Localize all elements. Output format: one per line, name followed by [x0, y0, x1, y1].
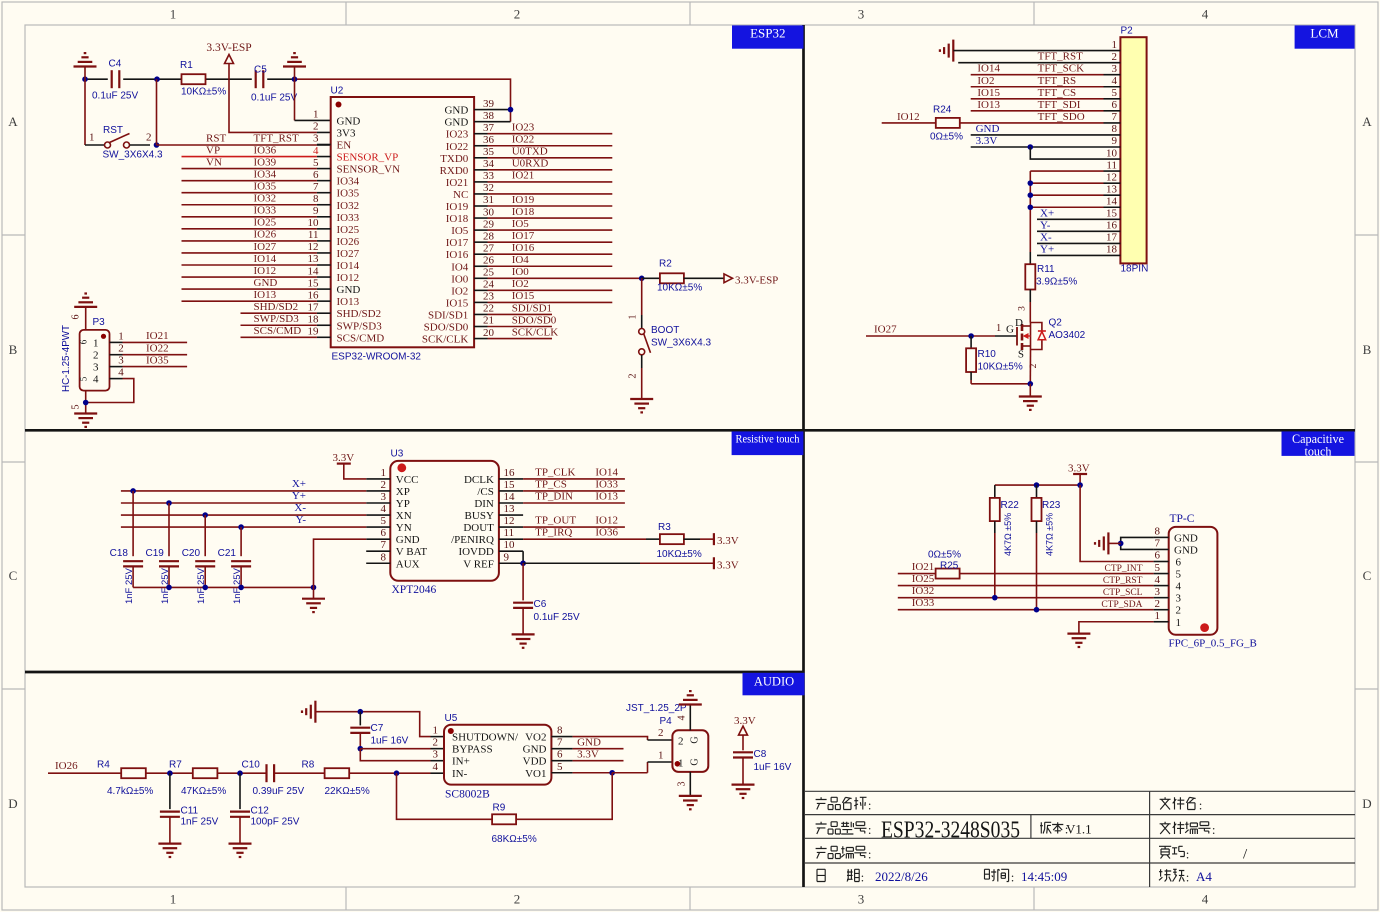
U5 pin1 dot [448, 728, 454, 734]
wire TFT_RST [958, 62, 1103, 64]
svg-text:GND: GND [1174, 544, 1198, 556]
svg-text:Y-: Y- [1040, 219, 1051, 231]
node IO27-R10 [968, 333, 974, 339]
svg-text:7: 7 [1112, 111, 1118, 123]
svg-text:12: 12 [504, 515, 515, 527]
wire gnd to RST pin1 [84, 79, 86, 145]
title 产品编号 [816, 846, 827, 858]
capacitor C12 [239, 773, 241, 809]
wire RST vertical [156, 79, 158, 145]
switch BOOT SW_3X6X4.3 [639, 329, 645, 335]
svg-text:R9: R9 [493, 803, 506, 814]
capacitor C10 [265, 764, 267, 782]
U2 pin1 dot [336, 102, 342, 108]
svg-text:SHUTDOWN/: SHUTDOWN/ [452, 732, 519, 744]
svg-text:SDI/SD1: SDI/SD1 [428, 309, 468, 321]
svg-text:0.1uF 25V: 0.1uF 25V [534, 612, 580, 623]
title block version divider [1030, 815, 1032, 839]
power 3.3V VREF [713, 557, 715, 569]
ground ctp bottom [1067, 632, 1090, 634]
svg-text:X+: X+ [292, 478, 306, 490]
svg-text:10: 10 [1106, 147, 1118, 159]
wires TP nets [523, 478, 625, 480]
node bl row14 [1028, 204, 1034, 210]
svg-text:1: 1 [1112, 39, 1118, 51]
switch RST SW_3X6X4.3 [85, 144, 104, 146]
svg-text:8: 8 [557, 725, 563, 737]
node IN- R9 tap [394, 770, 400, 776]
svg-text:S: S [1018, 349, 1024, 361]
svg-text:/CS: /CS [477, 486, 494, 498]
wire P3 IO22 [123, 354, 188, 356]
node source-gnd [1028, 381, 1034, 387]
svg-text:GND: GND [337, 115, 361, 127]
svg-text:IO27: IO27 [254, 241, 277, 253]
P3 pin stubs [110, 341, 123, 343]
svg-text:IO2: IO2 [451, 285, 468, 297]
svg-text:SCK/CLK: SCK/CLK [422, 334, 469, 346]
P3 pin1 dot [101, 334, 106, 339]
svg-text:1: 1 [170, 7, 177, 22]
svg-text:TP_OUT: TP_OUT [535, 515, 576, 527]
svg-text:2: 2 [628, 374, 639, 379]
svg-text:C8: C8 [754, 749, 767, 760]
svg-text:IO35: IO35 [146, 354, 169, 366]
U2 left pin stubs [317, 144, 331, 146]
title 产品名称 [816, 797, 827, 809]
svg-text:IO33: IO33 [337, 212, 360, 224]
resistor R3 [660, 534, 684, 544]
svg-text:touch: touch [1304, 445, 1331, 459]
node bl row13 [1028, 192, 1034, 198]
svg-text:1: 1 [170, 892, 177, 907]
svg-text:C18: C18 [110, 548, 129, 559]
svg-text:3.3V-ESP: 3.3V-ESP [206, 42, 251, 54]
svg-text:3.3V: 3.3V [734, 715, 756, 727]
svg-text:C20: C20 [182, 548, 201, 559]
svg-text:IO26: IO26 [55, 760, 78, 772]
svg-text:CTP_RST: CTP_RST [1103, 576, 1143, 586]
svg-text:5: 5 [1112, 87, 1118, 99]
svg-text:SWP/SD3: SWP/SD3 [254, 313, 300, 325]
wire R3 to 3.3V [684, 538, 700, 540]
wire R4-R7 [146, 772, 193, 774]
wire IO0 to R2 [642, 277, 660, 279]
svg-text:P4: P4 [660, 716, 673, 727]
svg-text:IO33: IO33 [595, 478, 618, 490]
wire IO12 to R24 [882, 122, 936, 124]
node 3.3V junction [1028, 144, 1034, 150]
svg-text:IO27: IO27 [874, 324, 897, 336]
svg-text:3: 3 [433, 749, 439, 761]
svg-text:U3: U3 [391, 449, 404, 460]
svg-text:7: 7 [557, 737, 563, 749]
wire TFT_SDO [960, 122, 1104, 124]
svg-text:ESP32-WROOM-32: ESP32-WROOM-32 [332, 352, 422, 363]
svg-text:IO33: IO33 [254, 205, 277, 217]
svg-text:BOOT: BOOT [651, 325, 679, 336]
node C20 tap [202, 512, 208, 518]
banner Capacitive touch [1282, 431, 1355, 456]
svg-text:TFT_SDI: TFT_SDI [1038, 99, 1081, 111]
wire R9 right [516, 773, 612, 820]
wire R8-U5 [349, 772, 430, 774]
wire VO1 out [573, 772, 613, 774]
U2 right pin stubs [474, 109, 487, 111]
svg-text:C12: C12 [251, 806, 270, 817]
svg-text:20: 20 [483, 327, 495, 339]
ground C11 [158, 842, 181, 844]
svg-text:TFT_SDO: TFT_SDO [1038, 111, 1085, 123]
svg-text:VDD: VDD [523, 756, 547, 768]
svg-text:YN: YN [396, 522, 412, 534]
svg-text:3.3V: 3.3V [717, 535, 739, 547]
wire TFT_CS [971, 98, 1104, 100]
svg-text:34: 34 [483, 158, 495, 170]
svg-text:1: 1 [1176, 617, 1182, 629]
svg-text:IO14: IO14 [337, 260, 360, 272]
svg-text::: : [1011, 870, 1015, 885]
svg-text:IO34: IO34 [337, 176, 360, 188]
svg-text:1: 1 [628, 315, 639, 320]
svg-text:IO18: IO18 [512, 206, 535, 218]
svg-text:EN: EN [337, 140, 352, 152]
svg-text:U5: U5 [445, 713, 458, 724]
ground top C5-right [283, 65, 306, 67]
svg-text:3: 3 [858, 7, 865, 22]
ground C6 [512, 633, 535, 635]
svg-text:1: 1 [678, 758, 684, 770]
svg-text:Y+: Y+ [1040, 243, 1054, 255]
node C21 tap [238, 524, 244, 530]
svg-text:CTP_SCL: CTP_SCL [1103, 588, 1143, 598]
title block row line 3 [805, 837, 1355, 839]
svg-text:3.3V-ESP: 3.3V-ESP [735, 275, 778, 287]
svg-text:0.1uF 25V: 0.1uF 25V [251, 93, 297, 104]
svg-text:BYPASS: BYPASS [452, 744, 493, 756]
svg-text:39: 39 [483, 98, 495, 110]
svg-text:SCS/CMD: SCS/CMD [254, 325, 302, 337]
ground audio left [314, 701, 316, 723]
svg-text:5: 5 [381, 515, 387, 527]
svg-text:IO0: IO0 [512, 266, 530, 278]
svg-text:2: 2 [658, 727, 664, 739]
frame row ticks left [2, 234, 25, 236]
svg-text:C7: C7 [371, 723, 384, 734]
svg-text:3.3V: 3.3V [1068, 463, 1090, 475]
wire R7-C10 [217, 772, 266, 774]
wire C20 drop [204, 515, 206, 556]
svg-text:R23: R23 [1042, 500, 1061, 511]
svg-text:2: 2 [313, 121, 319, 133]
svg-text:VCC: VCC [396, 474, 419, 486]
wire shutdown rail [315, 712, 430, 737]
svg-text:4: 4 [1112, 75, 1118, 87]
svg-text:D: D [8, 796, 17, 811]
svg-text:IO17: IO17 [512, 230, 535, 242]
title 产品型号 [816, 822, 827, 834]
svg-text:V REF: V REF [463, 558, 494, 570]
wire rail to pin39/38 [295, 79, 511, 121]
divider horizontal left [25, 671, 804, 674]
svg-text:3.3V: 3.3V [333, 452, 355, 464]
svg-text:IO26: IO26 [337, 236, 360, 248]
svg-text:C11: C11 [181, 806, 199, 817]
svg-text:3.3V: 3.3V [976, 135, 998, 147]
capacitor C5 [255, 70, 257, 88]
svg-text:IO32: IO32 [337, 200, 360, 212]
divider vertical [802, 25, 805, 887]
svg-text:1nF 25V: 1nF 25V [181, 817, 219, 828]
svg-text:38: 38 [483, 110, 495, 122]
wire row9-row10 [1030, 147, 1103, 159]
wire TFT_SCK [971, 74, 1104, 76]
capacitor C7 [359, 712, 361, 726]
svg-text:A: A [1362, 114, 1372, 129]
svg-text:9: 9 [1112, 135, 1118, 147]
wires U2 right nets [488, 133, 613, 135]
svg-text:18: 18 [308, 313, 320, 325]
svg-text:3: 3 [93, 362, 99, 374]
ground P3 top [74, 306, 97, 308]
svg-text:2: 2 [1176, 605, 1182, 617]
svg-text:13: 13 [308, 253, 320, 265]
U3 pin stubs [366, 478, 390, 480]
svg-text:11: 11 [1106, 159, 1117, 171]
capacitor C6 [513, 602, 533, 604]
svg-text:C: C [1363, 568, 1372, 583]
svg-text:IO21: IO21 [446, 177, 469, 189]
svg-text:9: 9 [504, 551, 510, 563]
svg-text:IO4: IO4 [512, 254, 530, 266]
svg-text:IN-: IN- [452, 768, 468, 780]
svg-text:8: 8 [1155, 526, 1161, 538]
svg-text::: : [1212, 822, 1216, 837]
svg-text::: : [1186, 870, 1190, 885]
svg-text:R10: R10 [978, 349, 997, 360]
svg-text:IO2: IO2 [977, 75, 994, 87]
svg-text:0.1uF 25V: 0.1uF 25V [92, 91, 138, 102]
ground C8 [732, 783, 755, 785]
capacitor C11 [169, 773, 171, 809]
title 时间 [985, 869, 997, 881]
wire pin39 tie [488, 109, 511, 111]
svg-text:3: 3 [1018, 306, 1028, 311]
svg-text::: : [868, 847, 872, 862]
svg-text:6: 6 [313, 169, 319, 181]
svg-text:5: 5 [557, 761, 563, 773]
svg-text:IO12: IO12 [254, 265, 277, 277]
wire 3.3V to pin6 [1080, 485, 1154, 561]
svg-text:IO4: IO4 [451, 261, 469, 273]
capacitor C20 [195, 560, 215, 562]
svg-text:0.39uF 25V: 0.39uF 25V [253, 786, 305, 797]
wire touch rows [1037, 218, 1104, 220]
svg-text:GND: GND [444, 117, 468, 129]
svg-text:IO25: IO25 [254, 217, 277, 229]
svg-text:10: 10 [504, 539, 516, 551]
svg-text:17: 17 [308, 301, 320, 313]
svg-text:3: 3 [381, 491, 387, 503]
capacitor C8 [733, 751, 753, 753]
svg-text:U2: U2 [331, 86, 344, 97]
svg-text:18: 18 [1106, 244, 1118, 256]
svg-text:3: 3 [858, 892, 865, 907]
svg-text:VO2: VO2 [525, 732, 546, 744]
svg-text:8: 8 [313, 193, 319, 205]
wire P2 pin1 [953, 50, 1103, 52]
banner AUDIO [743, 673, 805, 696]
svg-text:10KΩ±5%: 10KΩ±5% [181, 87, 226, 98]
svg-text:Resistive touch: Resistive touch [736, 432, 800, 446]
svg-text:X-: X- [1040, 231, 1052, 243]
svg-text:IO19: IO19 [512, 194, 535, 206]
power 3.3V R3 [713, 533, 715, 545]
svg-text:37: 37 [483, 122, 495, 134]
svg-text:6: 6 [1155, 550, 1161, 562]
svg-text:3: 3 [1155, 586, 1161, 598]
svg-text:6: 6 [1112, 99, 1118, 111]
svg-text:R24: R24 [933, 105, 952, 116]
svg-text:IO22: IO22 [146, 343, 169, 355]
title block row line 2 [805, 814, 1355, 816]
resistor R23 [1036, 485, 1038, 498]
P4 pin1 dot [675, 761, 681, 767]
resistor R10 [970, 336, 972, 348]
svg-text:B: B [9, 342, 18, 357]
svg-text:0Ω±5%: 0Ω±5% [930, 132, 963, 143]
svg-text:2: 2 [146, 132, 152, 144]
svg-text:4: 4 [1176, 581, 1182, 593]
svg-text:35: 35 [483, 146, 495, 158]
XPT2046 U3 body [390, 461, 499, 581]
wire IO26 in [48, 772, 121, 774]
wire CTP_INT [960, 573, 1154, 575]
wire IO0 to BOOT [641, 278, 643, 315]
svg-text:1: 1 [313, 109, 319, 121]
wire GND row U3 [314, 539, 367, 599]
svg-text:5: 5 [71, 405, 82, 410]
wire P4 shield bottom [689, 772, 691, 796]
wire IO0 net [488, 277, 642, 279]
svg-text:IO0: IO0 [451, 273, 469, 285]
svg-text:13: 13 [1106, 183, 1118, 195]
svg-text:TFT_CS: TFT_CS [1038, 87, 1077, 99]
svg-text:IO22: IO22 [512, 134, 535, 146]
svg-text:JST_1.25_2P: JST_1.25_2P [626, 703, 687, 714]
node VREF [520, 560, 526, 566]
svg-text:IOVDD: IOVDD [458, 546, 493, 558]
svg-text:GND: GND [396, 534, 420, 546]
svg-text:SCS/CMD: SCS/CMD [337, 332, 385, 344]
banner LCM [1295, 25, 1355, 48]
svg-text:IO21: IO21 [512, 170, 535, 182]
wire IO21 lead [898, 573, 936, 575]
svg-text:GND: GND [577, 737, 601, 749]
svg-text:IO13: IO13 [337, 296, 360, 308]
P2 pin stubs [1104, 50, 1121, 52]
node rail-C4 [82, 76, 88, 82]
wire pin38 tie [488, 121, 511, 123]
svg-text:X+: X+ [1040, 207, 1054, 219]
svg-text:SENSOR_VP: SENSOR_VP [337, 152, 399, 164]
svg-text:R25: R25 [940, 561, 959, 572]
svg-text:25: 25 [483, 267, 495, 279]
svg-text:NC: NC [453, 189, 468, 201]
svg-text:IO15: IO15 [977, 87, 1000, 99]
svg-text:5: 5 [313, 157, 319, 169]
svg-text:IO13: IO13 [595, 491, 618, 503]
svg-text:SHD/SD2: SHD/SD2 [254, 301, 299, 313]
svg-text:47KΩ±5%: 47KΩ±5% [181, 786, 226, 797]
wire R9 left [397, 773, 493, 819]
svg-text:ESP32-3248S035: ESP32-3248S035 [881, 817, 1020, 844]
node C7 top [358, 709, 364, 715]
wire VO2 to P4 [573, 737, 648, 740]
svg-text:IO36: IO36 [595, 527, 618, 539]
wire GND net U5 [573, 748, 624, 750]
svg-text:DCLK: DCLK [464, 474, 494, 486]
svg-text:18PIN: 18PIN [1121, 264, 1149, 275]
svg-text:1: 1 [93, 337, 99, 349]
svg-text:SC8002B: SC8002B [445, 789, 490, 801]
power 3.3V-ESP top [225, 55, 234, 64]
svg-text:BUSY: BUSY [465, 510, 494, 522]
wire P3 pin4 loop [86, 379, 134, 403]
svg-text:3.3V: 3.3V [577, 749, 599, 761]
resistor R7 [193, 768, 218, 778]
wire P3 IO21 [123, 341, 188, 343]
title 日期 [817, 869, 825, 881]
svg-text:14: 14 [308, 265, 320, 277]
U5 right stubs [551, 736, 572, 738]
node rail-R23 [1034, 482, 1040, 488]
svg-text:IO23: IO23 [446, 129, 469, 141]
svg-text::: : [1186, 847, 1190, 862]
svg-text:17: 17 [1106, 232, 1118, 244]
wire 3.3V net U5 [573, 760, 624, 762]
svg-text:Q2: Q2 [1049, 318, 1063, 329]
svg-text:12: 12 [308, 241, 319, 253]
svg-text:IO21: IO21 [912, 561, 935, 573]
svg-text:IO36: IO36 [254, 144, 277, 156]
wire pullup rail [995, 484, 1080, 486]
svg-text:VN: VN [206, 156, 222, 168]
svg-text:IO12: IO12 [595, 515, 618, 527]
connector TP-C body [1169, 527, 1218, 635]
power 3.3V-ESP right [724, 274, 733, 283]
svg-text:2: 2 [433, 737, 439, 749]
wire X- row [121, 514, 366, 516]
svg-text:ESP32: ESP32 [750, 26, 785, 41]
svg-text:SCK/CLK: SCK/CLK [512, 326, 559, 338]
wire pin1 GND drop [294, 79, 296, 120]
svg-text:IO15: IO15 [512, 290, 535, 302]
svg-text:GND: GND [976, 123, 1000, 135]
svg-text:5: 5 [1176, 569, 1182, 581]
ground P4 top [679, 703, 702, 705]
wire ctp pin1 [1079, 622, 1154, 634]
node c20 bot [202, 585, 208, 591]
svg-text:14: 14 [1106, 195, 1118, 207]
svg-text:4: 4 [1202, 892, 1209, 907]
svg-text:TP_CLK: TP_CLK [535, 466, 575, 478]
title 纸张 [1159, 869, 1171, 881]
svg-text:GND: GND [254, 277, 278, 289]
svg-text:6: 6 [557, 749, 563, 761]
svg-text:3: 3 [313, 133, 319, 145]
svg-text:4K7Ω ±5%: 4K7Ω ±5% [1045, 513, 1055, 556]
